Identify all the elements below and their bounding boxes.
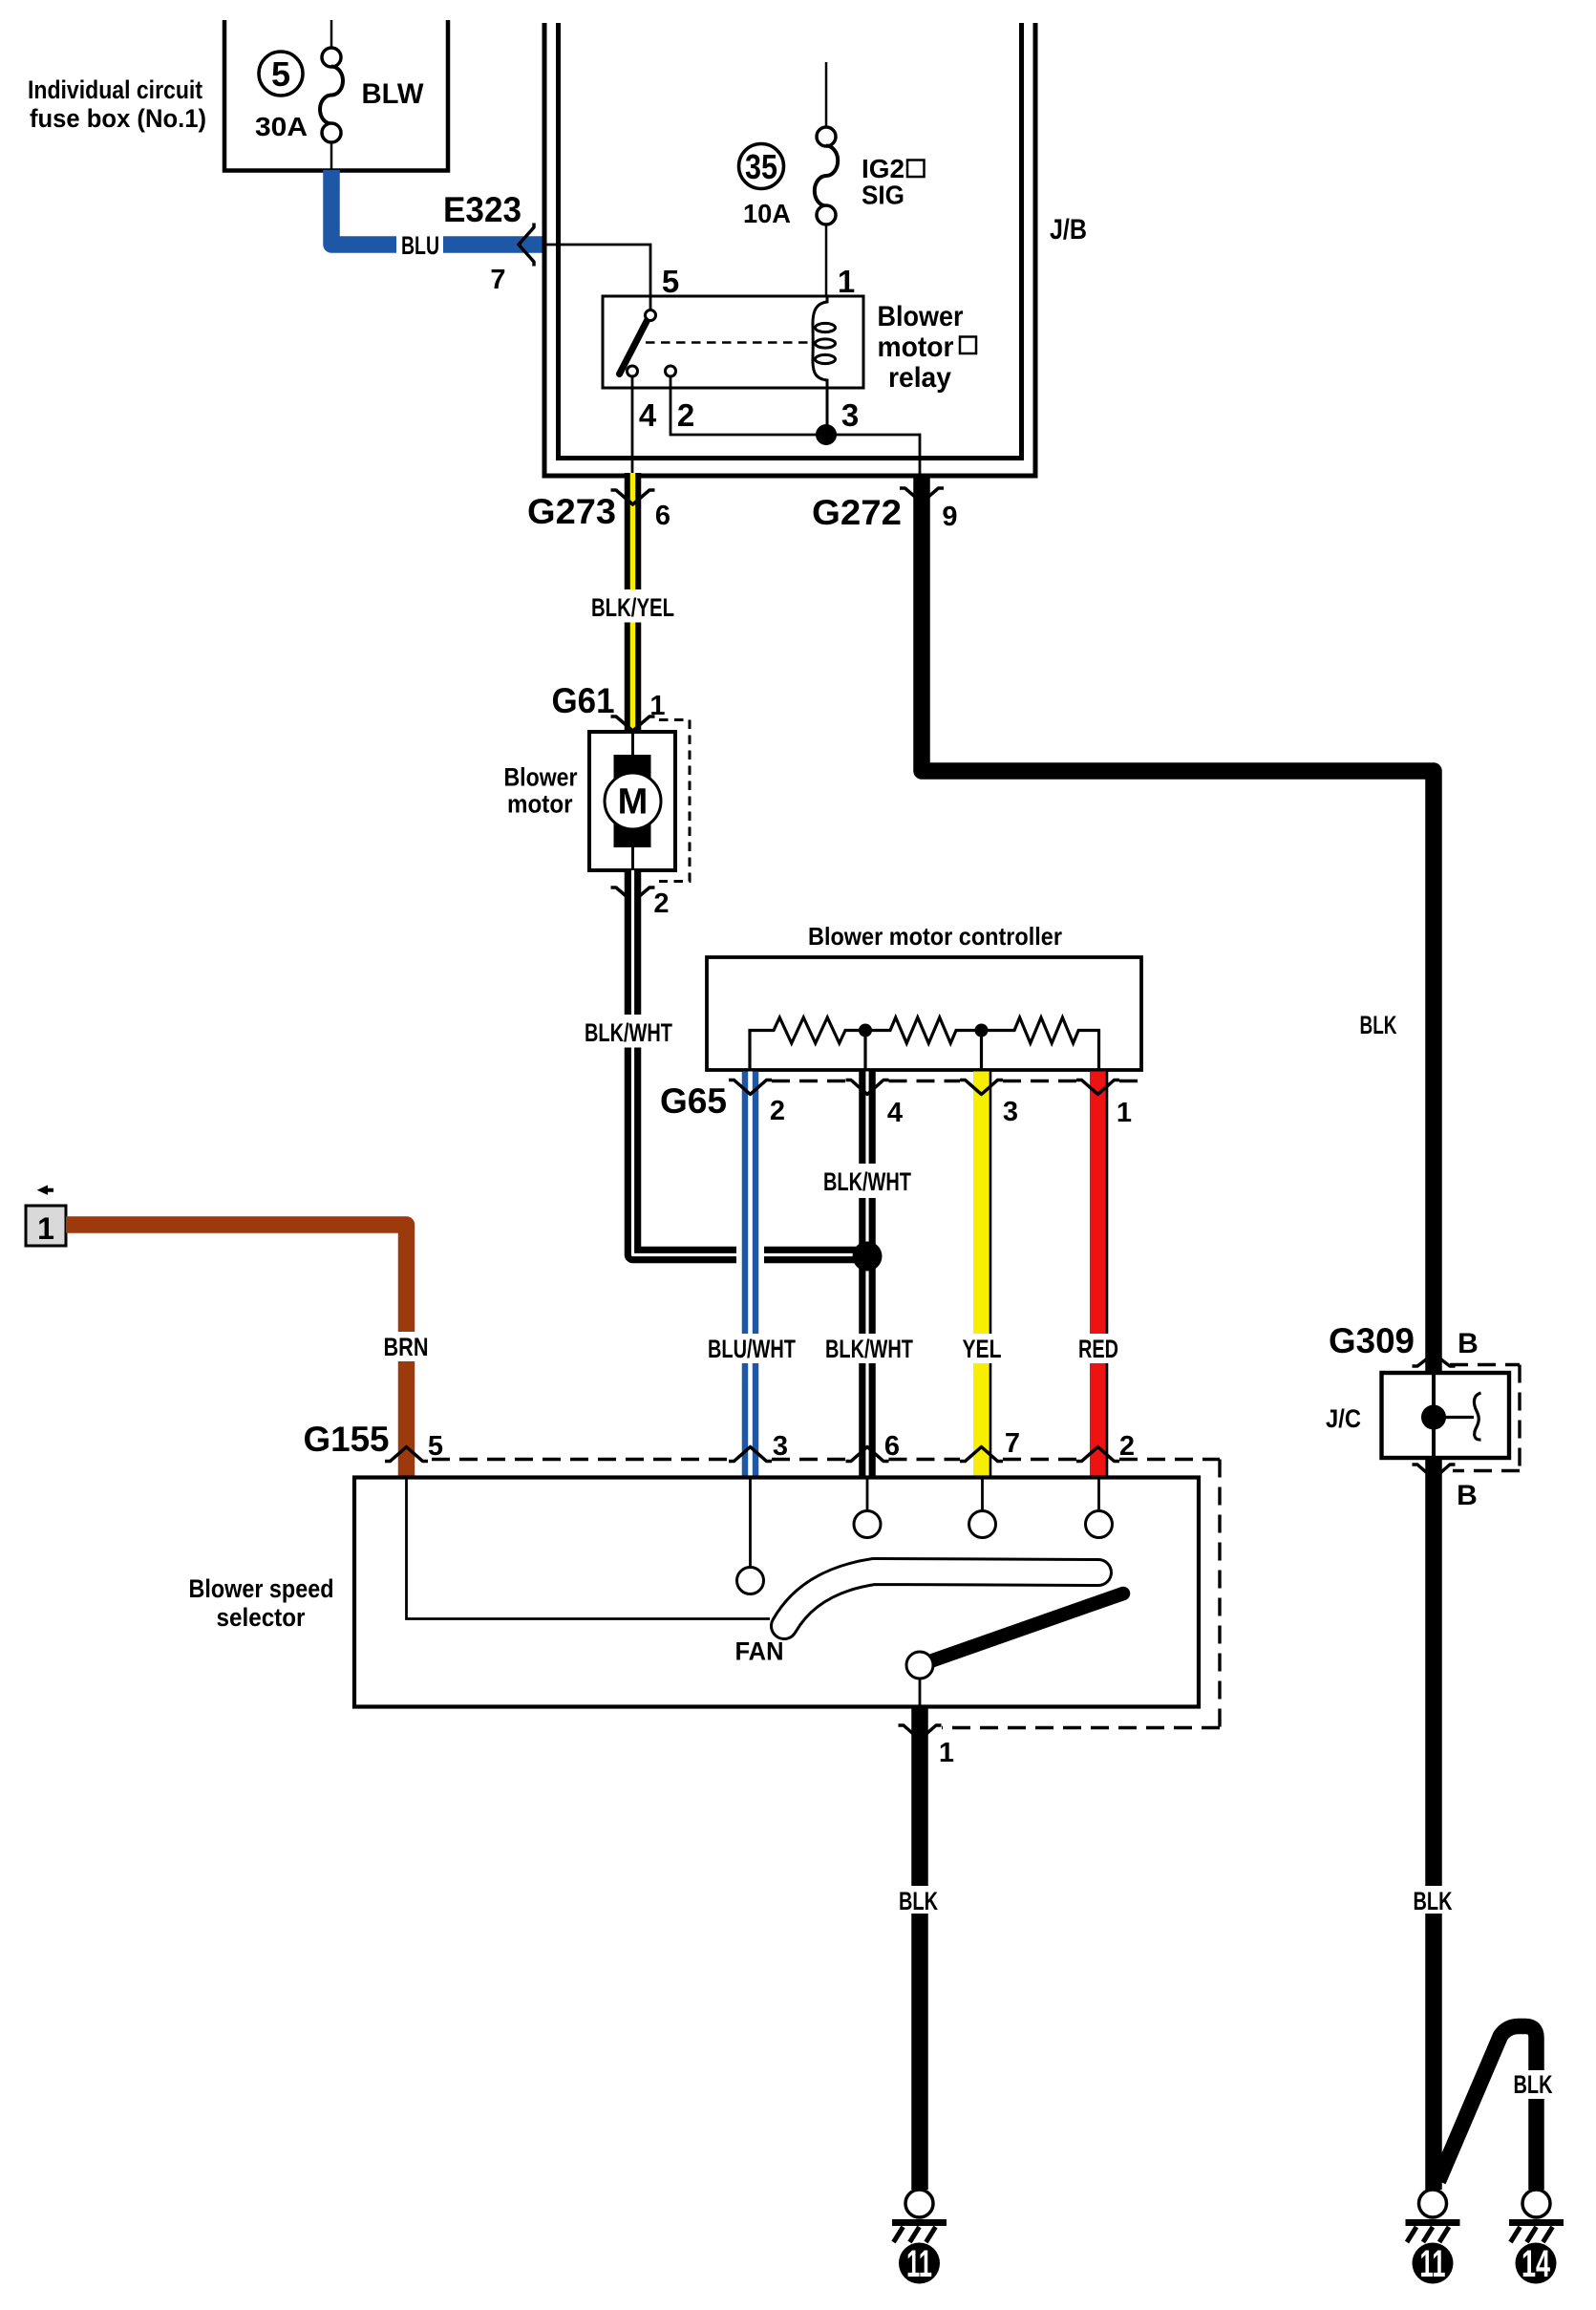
ground number 11 left — [899, 2243, 940, 2286]
J/C link line — [1434, 1416, 1474, 1419]
svg-text:SIG: SIG — [862, 181, 904, 210]
wire BLK branch segment 2 — [1528, 2099, 1544, 2190]
svg-text:6: 6 — [884, 1431, 900, 1462]
wire BLK right segment 2 — [1425, 1914, 1442, 2190]
svg-text:J/B: J/B — [1050, 214, 1087, 246]
svg-text:BLU: BLU — [401, 231, 439, 260]
svg-text:Blower speed: Blower speed — [189, 1574, 334, 1603]
fuse F35 symbol — [815, 62, 838, 296]
svg-text:motor: motor — [878, 332, 954, 363]
svg-text:G65: G65 — [660, 1081, 727, 1121]
wire BLK branch to ground 14 segment 1 — [1438, 2026, 1537, 2181]
node drop pin 4 — [863, 1031, 866, 1071]
blower motor box — [589, 732, 675, 870]
white gap at wire crossing — [736, 1244, 764, 1269]
svg-text:1: 1 — [939, 1738, 954, 1768]
G61 dashed boundary — [659, 720, 690, 882]
G155 chevron pin 7 — [960, 1447, 1003, 1462]
svg-text:9: 9 — [942, 502, 957, 532]
label Blower speed selector — [189, 1574, 334, 1632]
node dot A — [859, 1024, 872, 1037]
svg-text:5: 5 — [662, 264, 679, 299]
G65 chevron pin 1 — [1076, 1080, 1119, 1095]
svg-text:3: 3 — [773, 1431, 788, 1462]
svg-text:4: 4 — [639, 397, 657, 433]
G155 chevron pin 3 — [729, 1447, 772, 1462]
svg-text:7: 7 — [1005, 1428, 1020, 1459]
wire BLU heavy segment 1 — [331, 170, 396, 245]
svg-text:11: 11 — [906, 2243, 932, 2285]
wire BLK/WHT pin4 segment 2 — [859, 1198, 876, 1334]
svg-text:G309: G309 — [1329, 1321, 1415, 1360]
svg-text:Blower: Blower — [504, 763, 578, 792]
wire relay pin2 to node — [670, 376, 920, 476]
wire BLK/WHT motor segment 2 to junction — [633, 1048, 861, 1255]
wire BLU/WHT segment 1 — [742, 1072, 759, 1335]
svg-text:BLK/WHT: BLK/WHT — [823, 1167, 911, 1196]
svg-text:E323: E323 — [443, 190, 521, 229]
label Blower motor — [504, 763, 578, 819]
fuse F5 circled number — [259, 52, 303, 96]
wire BRN heavy segment 2 — [398, 1361, 415, 1477]
wire BLK heavy G272 route — [922, 474, 1434, 1373]
svg-text:Individual circuit: Individual circuit — [28, 75, 202, 104]
wire BLK selector pin1 segment 2 — [911, 1914, 928, 2190]
node dot B — [975, 1024, 989, 1037]
wire BLK/WHT motor segment 1 — [625, 870, 642, 1015]
selector pin 1 lead — [919, 1679, 922, 1707]
selector box — [354, 1478, 1199, 1707]
G155 chevron pin 5 — [385, 1447, 428, 1462]
ground symbol right — [1509, 2190, 1564, 2242]
svg-text:G61: G61 — [552, 681, 615, 720]
label: Individual circuit fuse box (No.1) — [28, 75, 206, 133]
svg-text:5: 5 — [271, 54, 290, 94]
wire BLK/YEL segment 2 — [625, 623, 642, 733]
wire BLK/WHT pin4 segment 1 — [859, 1072, 876, 1165]
G155 chevron pin 6 — [846, 1447, 889, 1462]
svg-text:3: 3 — [1003, 1097, 1018, 1127]
G65 chevron pin 4 — [846, 1080, 889, 1095]
svg-text:B: B — [1458, 1328, 1479, 1359]
svg-text:Blower motor controller: Blower motor controller — [808, 922, 1062, 951]
svg-text:fuse box (No.1): fuse box (No.1) — [30, 104, 206, 133]
svg-text:30A: 30A — [255, 112, 308, 141]
svg-text:1: 1 — [838, 264, 855, 299]
G65 dashed line — [772, 1080, 1141, 1082]
svg-text:IG2: IG2 — [862, 154, 904, 183]
svg-text:BLU/WHT: BLU/WHT — [708, 1335, 796, 1363]
selector interior wire pin5 — [407, 1477, 771, 1619]
wire E323 to relay pin 5 — [544, 245, 650, 310]
svg-text:6: 6 — [655, 501, 670, 531]
svg-text:J/C: J/C — [1326, 1404, 1361, 1433]
svg-text:BLK: BLK — [1414, 1887, 1453, 1915]
svg-text:11: 11 — [1420, 2243, 1446, 2285]
svg-text:motor: motor — [507, 790, 573, 819]
svg-text:RED: RED — [1078, 1335, 1118, 1363]
svg-text:BLK: BLK — [1514, 2070, 1553, 2099]
svg-text:4: 4 — [887, 1098, 903, 1128]
node drop pin 3 — [980, 1031, 983, 1071]
motor pin 2 chevron — [611, 888, 655, 902]
svg-text:2: 2 — [653, 888, 669, 919]
ground number 11 right — [1413, 2243, 1454, 2286]
svg-text:1: 1 — [37, 1211, 54, 1246]
svg-text:14: 14 — [1522, 2243, 1551, 2285]
selector dashed boundary — [432, 1460, 1220, 1728]
svg-text:10A: 10A — [743, 199, 791, 228]
connector E323 chevron — [519, 224, 534, 267]
svg-text:selector: selector — [217, 1603, 306, 1632]
motor circle — [605, 773, 661, 829]
svg-text:BRN: BRN — [384, 1333, 429, 1361]
ground symbol left — [892, 2190, 947, 2242]
svg-text:G273: G273 — [527, 492, 616, 531]
connector G272 chevron — [900, 488, 944, 503]
fuse F35 circled number — [739, 144, 784, 189]
svg-text:M: M — [618, 782, 649, 823]
svg-text:2: 2 — [770, 1096, 785, 1126]
J/C squiggle — [1474, 1393, 1480, 1440]
J/C junction dot — [1421, 1405, 1446, 1430]
svg-text:7: 7 — [490, 265, 505, 295]
svg-text:FAN: FAN — [735, 1637, 784, 1666]
relay coil and pin1/pin3 wire — [813, 296, 836, 435]
svg-text:1: 1 — [1117, 1098, 1132, 1128]
ground symbol middle — [1406, 2190, 1460, 2242]
relay contact pin 2 — [666, 366, 676, 376]
wire BRN heavy segment 1 — [66, 1225, 407, 1332]
selector contact pin 7 — [969, 1511, 996, 1538]
motor commutator rect — [614, 755, 651, 847]
selector lever — [927, 1593, 1123, 1662]
J/B inner border — [559, 23, 1022, 459]
fuse F5 symbol — [320, 20, 343, 171]
wire BLK right segment 1 — [1425, 1458, 1442, 1886]
wire BLU heavy segment 2 — [443, 236, 544, 253]
connector 1 grey square — [26, 1206, 66, 1246]
G309 top chevron — [1413, 1354, 1456, 1366]
svg-text:relay: relay — [888, 362, 951, 394]
resistor chain R1 R2 R3 — [750, 1017, 1099, 1070]
svg-text:G272: G272 — [812, 493, 902, 532]
relay dashed actuator line — [646, 341, 815, 344]
wire RED segment 2 — [1098, 1363, 1108, 1477]
svg-text:B: B — [1457, 1480, 1478, 1511]
wire BLK selector pin1 segment 1 — [911, 1707, 928, 1886]
svg-text:G155: G155 — [304, 1420, 390, 1459]
label Blower motor relay — [878, 301, 977, 394]
wire BLK/WHT pin4 segment 3 — [859, 1363, 876, 1477]
svg-text:BLK/WHT: BLK/WHT — [585, 1018, 672, 1047]
svg-text:35: 35 — [745, 147, 777, 186]
selector pin 1 chevron — [899, 1725, 942, 1740]
controller box — [707, 957, 1141, 1070]
svg-text:3: 3 — [841, 397, 859, 433]
svg-text:BLW: BLW — [362, 78, 425, 110]
selector contact pin 3 — [737, 1568, 764, 1594]
wire YEL segment 2 — [982, 1363, 991, 1477]
motor interior leads — [631, 732, 634, 757]
selector pin 7 lead — [981, 1477, 984, 1511]
connector G273 chevron — [611, 490, 655, 504]
wire BLK/YEL segment 1 — [625, 473, 642, 589]
relay switch blade — [620, 318, 649, 374]
selector pin 2 lead — [1097, 1477, 1100, 1511]
label IG2 (box) SIG — [862, 154, 925, 210]
relay contact pin 4 — [628, 366, 638, 376]
selector contact pin 6 — [854, 1511, 881, 1538]
svg-text:YEL: YEL — [963, 1335, 1002, 1363]
junction node pin 3 — [816, 424, 837, 445]
G309 dashed boundary — [1450, 1365, 1520, 1471]
svg-text:BLK/WHT: BLK/WHT — [825, 1335, 913, 1363]
G65 chevron pin 2 — [729, 1080, 772, 1095]
svg-text:BLK/YEL: BLK/YEL — [591, 593, 674, 622]
G309 bottom chevron — [1413, 1465, 1456, 1479]
svg-text:Blower: Blower — [878, 301, 964, 332]
svg-text:BLK: BLK — [1360, 1011, 1397, 1039]
selector pivot contact — [906, 1652, 933, 1679]
svg-text:5: 5 — [428, 1431, 443, 1462]
wire YEL segment 1 — [982, 1072, 991, 1335]
selector pin 6 lead — [866, 1477, 869, 1511]
svg-text:BLK: BLK — [899, 1887, 938, 1915]
J/C box — [1382, 1373, 1510, 1458]
fuse box (No.1) outline — [224, 20, 448, 171]
wire BLU/WHT segment 2 — [742, 1363, 759, 1477]
ground number 14 — [1516, 2243, 1557, 2286]
wire RED segment 1 — [1098, 1072, 1108, 1335]
connector G61 chevron — [611, 717, 655, 731]
G155 chevron pin 2 — [1076, 1447, 1119, 1462]
relay box — [603, 296, 863, 388]
relay contact pin 5 — [646, 310, 656, 321]
svg-text:2: 2 — [677, 397, 694, 433]
junction dot BLK/WHT — [853, 1242, 883, 1272]
page link arrow — [37, 1186, 53, 1195]
J/B outer border — [544, 23, 1035, 476]
slider track band — [784, 1572, 1098, 1626]
J/C interior wire — [1432, 1373, 1436, 1458]
selector pin 3 lead — [749, 1477, 752, 1568]
svg-text:2: 2 — [1119, 1431, 1135, 1462]
G65 chevron pin 3 — [960, 1080, 1003, 1095]
selector contact pin 2 — [1086, 1511, 1113, 1538]
wire relay pin4 down — [631, 376, 634, 476]
